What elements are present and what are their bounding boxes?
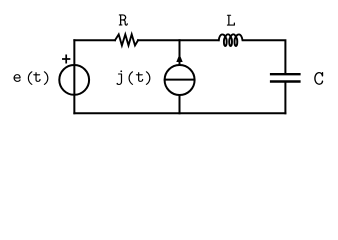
label e(t): glyph ) xyxy=(44,71,49,85)
label L (inductor value) xyxy=(227,15,235,26)
wire: left vertical through voltage source e(t) xyxy=(73,40,75,113)
voltage source e(t) polarity + sign xyxy=(63,55,70,62)
wire: top wire, resistor R to inductor L (through current source node) xyxy=(138,39,219,41)
current source j(t) arrowhead xyxy=(176,54,182,62)
label R (resistor value) xyxy=(119,14,128,25)
label e(t): glyph ( xyxy=(28,71,33,85)
inductor L (coil loops) xyxy=(224,37,227,46)
capacitor C bottom plate xyxy=(271,80,299,82)
label j(t): glyph ) xyxy=(146,71,151,85)
capacitor C top plate xyxy=(271,73,299,75)
label j(t): glyph t xyxy=(136,72,143,82)
wire: bottom wire xyxy=(74,112,285,114)
wire: top wire, inductor L to capacitor C (corner down) xyxy=(243,40,285,73)
voltage source e(t) circle xyxy=(59,65,89,95)
label j(t): glyph j xyxy=(117,70,123,85)
resistor R xyxy=(115,34,138,45)
label j(t): glyph ( xyxy=(129,71,134,85)
label e(t): glyph e xyxy=(14,74,21,82)
wire: top wire, voltage source e(t) to resistor R xyxy=(74,39,115,41)
inductor L (coil arches) xyxy=(219,34,226,40)
wire: current source j(t) bottom stub xyxy=(179,95,181,113)
label C (capacitor value) xyxy=(314,72,323,85)
wire: capacitor C bottom lead xyxy=(284,83,286,114)
label e(t): glyph t xyxy=(33,72,40,82)
wire: current source j(t) top stub xyxy=(179,40,181,64)
current source j(t) diameter bar xyxy=(165,79,195,81)
current source j(t) circle xyxy=(165,65,195,95)
